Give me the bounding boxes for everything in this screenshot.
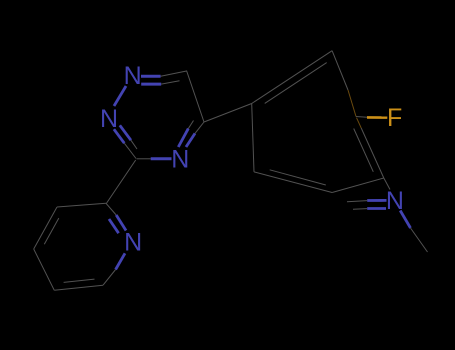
triazine bond N2=C3 outer line xyxy=(114,129,136,158)
benzene bond C1'=C2'(apex) outer xyxy=(252,51,332,104)
pyridine-A bond C4A=C3A inner xyxy=(44,218,59,244)
svg-text:N: N xyxy=(386,187,404,215)
bond C5 to benzene C1' xyxy=(204,104,252,123)
benzene bond C6'-C1' (left edge) xyxy=(252,104,254,172)
svg-text:N: N xyxy=(124,62,142,90)
triazine bond C3-N4 xyxy=(137,158,172,160)
benzene bond C3'=C4' (right edge) outer, top part orange tint xyxy=(357,118,384,178)
pyridine-A bond C6A=C5A outer xyxy=(54,285,103,290)
svg-text:F: F xyxy=(387,104,402,132)
pyridine-A bond C5A-C4A xyxy=(34,249,55,290)
triazine bond C6=N1 inner line xyxy=(141,81,179,84)
pyridine-C bond C2C=NC outer line xyxy=(347,200,387,201)
triazine bond C5-C6 xyxy=(187,71,205,123)
benzene bond C3'=C4' inner xyxy=(354,129,374,172)
triazine bond N1-N2 xyxy=(114,86,126,106)
benzene bond C4'-C5'(bottom apex) xyxy=(332,178,384,193)
benzene bond C5'=C6' inner xyxy=(270,170,326,185)
svg-text:N: N xyxy=(171,146,189,174)
svg-text:N: N xyxy=(124,229,142,257)
bond C3 to pyridine-A C2A xyxy=(106,160,135,203)
bond C3' to F xyxy=(356,117,387,118)
benzene bond C1'=C2'(apex) inner xyxy=(265,63,327,104)
triazine bond N4=C5 inner line xyxy=(178,121,193,148)
bond benzene C4' to pyridine-C N xyxy=(384,178,390,190)
pyridine-A bond C3A-C2A xyxy=(57,203,106,207)
triazine bond N4=C5 outer line xyxy=(186,122,204,147)
triazine bond N2=C3 inner line xyxy=(120,125,137,149)
benzene bond C2'(apex)-C3'(F carbon), lower part orange tint xyxy=(332,51,356,117)
pyridine-C bond C2C=NC inner line xyxy=(353,207,386,211)
pyridine-A bond C6A=C5A inner xyxy=(64,279,95,282)
pyridine-A bond C4A=C3A outer xyxy=(34,207,57,249)
benzene bond C5'=C6' outer xyxy=(254,172,332,193)
triazine bond C6=N1 outer line xyxy=(141,71,187,76)
pyridine-A bond C2A=NA line a xyxy=(109,219,119,233)
svg-text:N: N xyxy=(100,105,118,133)
pyridine-A bond NA-C6A xyxy=(103,253,125,285)
pyridine-A bond C2A=NA line b xyxy=(116,215,126,231)
pyridine-C bond NC-C6C xyxy=(400,211,427,253)
